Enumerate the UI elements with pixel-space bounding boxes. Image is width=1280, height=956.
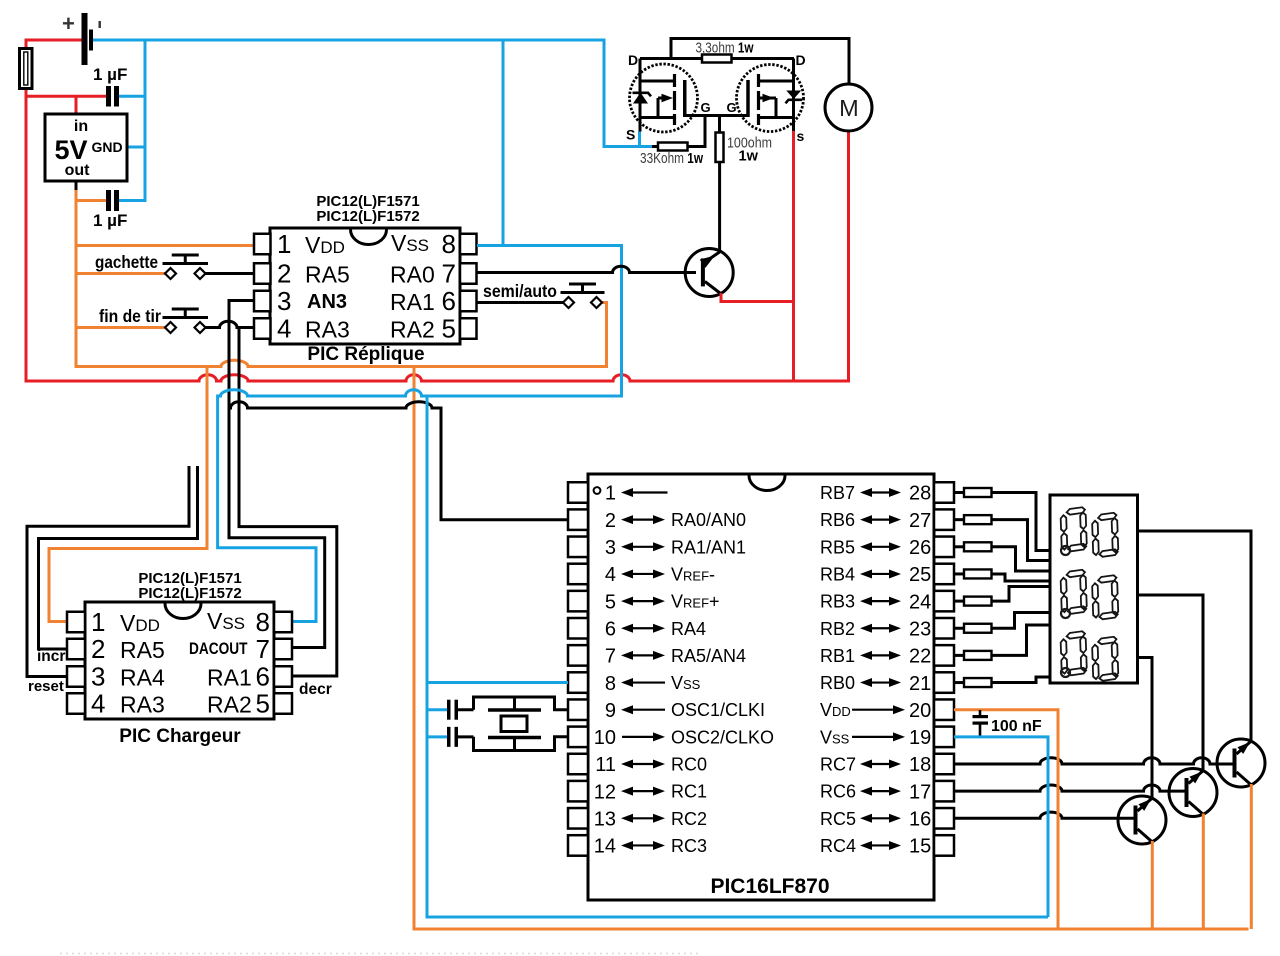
svg-text:9: 9 — [605, 700, 616, 722]
capacitor C1 1 µF — [106, 86, 119, 107]
wire U4 pin 16 RC5 to Q4 base — [954, 812, 1134, 818]
svg-text:S: S — [626, 127, 635, 143]
wire red right MOSFET source down to red bus — [792, 131, 795, 381]
svg-text:GND: GND — [91, 139, 122, 155]
resistor R2 33Kohm 1w — [658, 143, 688, 151]
display DS1 3-digit 7-segment — [1050, 495, 1138, 683]
U4 pin 13 RC2 — [568, 808, 707, 830]
svg-text:OSC1/CLKI: OSC1/CLKI — [671, 700, 765, 720]
wire orange Q4 emitter to VDD rail — [1151, 841, 1154, 929]
wire incr to open header pin — [39, 466, 198, 649]
IC U1 PIC12(L)F1571 PIC Replique — [254, 228, 477, 344]
wire black bus AN3 to PIC16 pin 2 — [229, 402, 568, 520]
svg-text:1: 1 — [277, 229, 291, 259]
switch SW2 fin de tir — [163, 309, 209, 333]
U4 pin 17 RC6 — [820, 781, 954, 803]
resistor R9 segment series — [954, 613, 1050, 633]
wire R2 leads — [652, 116, 705, 147]
U4 pin 12 RC1 — [568, 781, 707, 803]
svg-text:10: 10 — [594, 727, 616, 749]
wire blue Vss stub to U4 pin 8 — [427, 681, 568, 684]
svg-text:1 µF: 1 µF — [93, 65, 127, 84]
switch SW3 semi/auto — [561, 284, 605, 308]
svg-text:3,3ohm 1w: 3,3ohm 1w — [696, 41, 755, 57]
U4 pin 21 RB0 — [820, 672, 954, 694]
wire PIC Replique pin 6 to semi/auto — [477, 301, 563, 304]
resistor R5 segment series — [954, 515, 1050, 560]
capacitor C5 100 nF — [973, 710, 989, 736]
svg-text:20: 20 — [909, 700, 931, 722]
svg-text:RC3: RC3 — [671, 836, 707, 856]
svg-text:RA1: RA1 — [390, 289, 435, 315]
wire R8 to display — [992, 587, 1051, 602]
svg-text:8: 8 — [442, 229, 456, 259]
7-segment digit 2 — [1060, 569, 1118, 620]
resistor R7 segment series — [954, 569, 1050, 581]
svg-text:fin de tir: fin de tir — [99, 306, 161, 326]
U4 pin 18 RC7 — [820, 754, 954, 776]
U4 pin 19 VSS — [820, 727, 954, 749]
resistor R10 segment series — [954, 625, 1050, 660]
svg-text:23: 23 — [909, 618, 931, 640]
7-segment digit 1 — [1060, 507, 1118, 558]
decimal point digit 2 — [1061, 609, 1070, 618]
svg-text:16: 16 — [909, 809, 931, 831]
U4 pin 3 RA1/AN1 — [568, 537, 746, 559]
wire digit 3 common to Q4 collector — [1138, 658, 1153, 800]
svg-text:RA1/AN1: RA1/AN1 — [671, 537, 746, 557]
U4 pin 9 OSC1/CLKI — [568, 699, 765, 721]
svg-text:RB1: RB1 — [820, 646, 855, 666]
wire U4 pin 17 RC6 to Q5 base — [954, 785, 1185, 791]
svg-text:5: 5 — [605, 591, 616, 613]
svg-text:reset: reset — [28, 678, 64, 695]
svg-text:5: 5 — [256, 689, 270, 719]
svg-text:RA1: RA1 — [207, 665, 252, 691]
U4 pin 15 RC4 — [820, 835, 954, 857]
wire blue ground drop to capacitors and GND pin — [119, 40, 145, 201]
svg-text:21: 21 — [909, 673, 931, 695]
U4 pin 7 RA5/AN4 — [568, 645, 746, 667]
svg-text:semi/auto: semi/auto — [483, 281, 557, 301]
svg-text:RB5: RB5 — [820, 537, 855, 557]
wire fin de tir to pin 4 with hop — [206, 321, 255, 327]
wire reset to open header pin — [27, 466, 189, 677]
svg-text:26: 26 — [909, 537, 931, 559]
svg-text:RC5: RC5 — [820, 809, 856, 829]
svg-text:RC0: RC0 — [671, 755, 707, 775]
wire AN3 / DACOUT net — [229, 301, 325, 648]
svg-text:RA0: RA0 — [390, 262, 435, 288]
svg-text:decr: decr — [299, 681, 332, 698]
svg-text:RB4: RB4 — [820, 564, 855, 584]
svg-text:RA3: RA3 — [120, 692, 165, 718]
capacitor C3 — [447, 700, 451, 720]
svg-text:25: 25 — [909, 564, 931, 586]
wire red battery positive rail and bottom red bus — [26, 40, 849, 381]
svg-text:4: 4 — [91, 689, 105, 719]
svg-text:24: 24 — [909, 591, 931, 613]
svg-text:RA5/AN4: RA5/AN4 — [671, 646, 746, 666]
wire PIC Replique pin 7 to Q1 base — [477, 266, 696, 272]
svg-text:1w: 1w — [739, 149, 759, 165]
svg-text:PIC16LF870: PIC16LF870 — [710, 875, 829, 898]
svg-text:PIC12(L)F1572: PIC12(L)F1572 — [316, 208, 419, 225]
U4 pin 24 RB3 — [820, 591, 954, 613]
resistor R4 segment series — [954, 488, 1050, 551]
voltage regulator U3 5V — [45, 114, 127, 181]
U4 pin 8 VSS — [568, 672, 701, 694]
svg-text:7: 7 — [256, 634, 270, 664]
svg-text:PIC Réplique: PIC Réplique — [307, 344, 424, 365]
svg-text:27: 27 — [909, 510, 931, 532]
svg-text:6: 6 — [256, 662, 270, 692]
U4 pin 14 RC3 — [568, 835, 707, 857]
capacitor C2 1 µF — [106, 190, 119, 211]
transistor Q2 left MOSFET — [630, 59, 698, 133]
svg-text:RA0/AN0: RA0/AN0 — [671, 510, 746, 530]
wire blue drop to PIC16 area — [427, 396, 1048, 917]
wire blue Vss net Replique pin 8 to Chargeur pin 8 — [218, 246, 622, 622]
svg-text:5V: 5V — [54, 135, 87, 165]
svg-text:28: 28 — [909, 483, 931, 505]
svg-text:RB6: RB6 — [820, 510, 855, 530]
resistor R8 segment series — [954, 587, 1050, 606]
IC U4 PIC16LF870 — [588, 474, 934, 900]
svg-text:s: s — [797, 128, 805, 144]
resistor R6 segment series — [954, 542, 1050, 571]
wire R10 to display — [992, 625, 1051, 655]
svg-text:DACOUT: DACOUT — [189, 639, 248, 658]
decimal point digit 3 — [1061, 668, 1070, 677]
svg-text:M: M — [839, 95, 859, 121]
wire orange Q5 emitter to VDD rail — [1202, 814, 1205, 930]
svg-text:1: 1 — [91, 607, 105, 637]
motor M1 — [825, 84, 872, 131]
U4 pin 2 RA0/AN0 — [568, 509, 746, 531]
svg-text:in: in — [74, 118, 88, 135]
svg-text:15: 15 — [909, 836, 931, 858]
U4 pin 26 RB5 — [820, 537, 954, 559]
wire R4 to display — [992, 493, 1051, 551]
transistor Q5 — [1169, 768, 1217, 816]
svg-text:RB2: RB2 — [820, 619, 855, 639]
svg-text:RC4: RC4 — [820, 836, 856, 856]
svg-text:18: 18 — [909, 754, 931, 776]
wire red Q1 emitter to red bus — [721, 293, 794, 302]
wire red to 5V regulator input and capacitor C1 — [26, 96, 106, 114]
svg-text:out: out — [65, 162, 91, 179]
transistor Q4 — [1118, 796, 1166, 844]
U4 pin 16 RC5 — [820, 808, 954, 830]
wire orange drop to PIC Chargeur VDD — [49, 367, 207, 622]
svg-text:8: 8 — [605, 673, 616, 695]
battery B1 — [62, 11, 101, 65]
svg-text:2: 2 — [277, 259, 291, 289]
U4 pin 25 RB4 — [820, 564, 954, 586]
wire RA3 net to Chargeur pin 6 — [239, 328, 337, 677]
resistor R3 100ohm 1w — [716, 133, 724, 163]
svg-text:G: G — [701, 100, 711, 115]
svg-text:RB3: RB3 — [820, 592, 855, 612]
U4 pin 27 RB6 — [820, 509, 954, 531]
wire R7 to display — [992, 574, 1051, 581]
wire orange Q6 emitter to VDD rail — [1250, 784, 1253, 929]
capacitor C4 — [447, 727, 451, 747]
svg-text:RB7: RB7 — [820, 483, 855, 503]
svg-text:RC2: RC2 — [671, 809, 707, 829]
svg-text:PIC Chargeur: PIC Chargeur — [119, 726, 241, 747]
svg-text:5: 5 — [442, 314, 456, 344]
switch SW1 gachette — [163, 255, 209, 279]
svg-text:RA5: RA5 — [120, 637, 165, 663]
svg-text:100 nF: 100 nF — [991, 718, 1042, 735]
svg-text:RC6: RC6 — [820, 782, 856, 802]
svg-text:3: 3 — [605, 537, 616, 559]
svg-text:1 µF: 1 µF — [93, 211, 127, 230]
U4 pin 5 VREF+ — [568, 591, 720, 613]
wire digit 2 common to Q5 collector — [1138, 595, 1204, 772]
wire capacitor leads into crystal loop — [458, 710, 474, 737]
svg-text:11: 11 — [595, 754, 616, 776]
wire black drain rail with resistor R1 — [640, 57, 794, 60]
svg-text:AN3: AN3 — [307, 291, 347, 313]
svg-text:RA4: RA4 — [671, 619, 706, 639]
transistor Q3 right MOSFET — [737, 59, 804, 132]
svg-text:4: 4 — [605, 564, 616, 586]
svg-text:RB0: RB0 — [820, 673, 855, 693]
svg-text:2: 2 — [605, 510, 616, 532]
svg-text:D: D — [796, 52, 806, 68]
wire R6 to display — [992, 547, 1051, 571]
wire blue U4 pin 19 Vss — [954, 737, 1048, 917]
svg-text:14: 14 — [594, 836, 616, 858]
svg-text:1: 1 — [605, 483, 616, 505]
svg-text:G: G — [727, 100, 737, 115]
wire blue stubs to crystal capacitors — [427, 710, 447, 737]
svg-text:D: D — [628, 52, 638, 68]
wire digit 1 common to Q6 collector — [1138, 531, 1252, 742]
wire regulator output stub — [75, 181, 78, 191]
U4 pin 23 RB2 — [820, 618, 954, 640]
svg-text:3: 3 — [277, 286, 291, 316]
U4 pin 20 VDD — [820, 699, 954, 721]
svg-text:+: + — [62, 11, 75, 36]
wire R5 to display — [992, 520, 1051, 561]
svg-text:6: 6 — [442, 286, 456, 316]
svg-text:RC1: RC1 — [671, 782, 707, 802]
svg-text:7: 7 — [442, 259, 456, 289]
wire orange drop to bottom VDD rail — [414, 367, 1249, 930]
svg-text:19: 19 — [909, 727, 931, 749]
svg-text:33Kohm 1w: 33Kohm 1w — [640, 151, 704, 167]
7-segment digit 3 — [1060, 631, 1118, 682]
IC U2 PIC12(L)F1571 PIC Chargeur — [67, 602, 292, 719]
wire orange branches: C2, pin1, gachette, fin de tir — [76, 201, 254, 328]
wire R11 to display — [992, 677, 1051, 683]
fuse F1 — [20, 49, 33, 89]
U4 pin 10 OSC2/CLKO — [568, 727, 774, 749]
resistor R11 segment series — [954, 677, 1050, 687]
svg-text:3: 3 — [91, 662, 105, 692]
svg-text:RA3: RA3 — [305, 317, 350, 343]
U4 pin 1 MCLR — [568, 482, 668, 504]
wire gate-gate line — [685, 114, 748, 117]
svg-text:6: 6 — [605, 618, 616, 640]
wire U4 pin 18 RC7 to Q6 base — [954, 758, 1233, 764]
wire orange VDD net from regulator out to bus and semi/auto — [76, 190, 607, 367]
svg-text:13: 13 — [594, 809, 616, 831]
U4 pin 22 RB1 — [820, 645, 954, 667]
svg-text:RA2: RA2 — [207, 692, 252, 718]
U4 pin 6 RA4 — [568, 618, 706, 640]
svg-text:7: 7 — [605, 646, 616, 668]
U4 pin 4 VREF- — [568, 564, 715, 586]
wire blue battery negative top rail — [93, 40, 652, 147]
wire orange U4 pin 20 VDD — [954, 710, 1058, 929]
svg-text:4: 4 — [277, 314, 291, 344]
svg-text:incr: incr — [37, 648, 65, 665]
svg-text:12: 12 — [594, 781, 616, 803]
svg-text:RA4: RA4 — [120, 665, 165, 691]
U4 pin 28 RB7 — [820, 482, 954, 504]
svg-text:22: 22 — [909, 646, 931, 668]
crystal X1 with load network — [474, 697, 569, 751]
wire black upper rail to motor — [671, 39, 849, 85]
decimal point digit 1 — [1061, 546, 1070, 555]
wire R3 leads — [718, 116, 721, 163]
wire blue to MOSFET source and R2 — [604, 132, 652, 147]
svg-text:OSC2/CLKO: OSC2/CLKO — [671, 727, 774, 747]
resistor R1 3,3ohm 1w — [702, 55, 732, 63]
svg-text:17: 17 — [909, 781, 931, 803]
wire blue drop to PIC Replique pin 8 — [502, 40, 505, 246]
svg-text:2: 2 — [91, 634, 105, 664]
U4 pin 11 RC0 — [568, 754, 707, 776]
svg-text:RA2: RA2 — [390, 317, 435, 343]
svg-text:RC7: RC7 — [820, 755, 856, 775]
svg-text:RA5: RA5 — [305, 262, 350, 288]
transistor Q6 — [1217, 739, 1265, 787]
transistor Q1 — [685, 162, 733, 297]
svg-text:8: 8 — [256, 607, 270, 637]
wire gachette to pin 2 — [206, 272, 255, 275]
wire R9 to display — [992, 613, 1051, 629]
svg-text:gachette: gachette — [95, 252, 158, 272]
svg-text:PIC12(L)F1572: PIC12(L)F1572 — [138, 585, 241, 602]
